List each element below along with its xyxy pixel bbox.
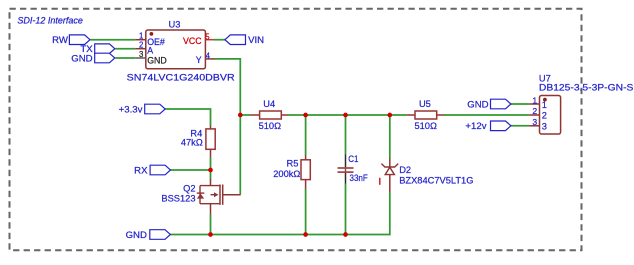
wire RX node to Q2 drain [210,170,212,180]
U4 right stub [281,114,287,116]
resistor R4 47k [181,125,215,157]
wire data line down to R5 top [305,115,307,156]
svg-text:Y: Y [196,55,202,65]
node junction data line at Y column [238,113,243,118]
wire +3.3v flag to R4 top [165,109,210,126]
U7 pin 2 stub [529,114,539,116]
U4 left stub [250,114,259,116]
svg-text:510Ω: 510Ω [259,121,282,131]
svg-text:BZX84C7V5LT1G: BZX84C7V5LT1G [399,176,473,186]
Q2 bulk arrow line [211,194,215,196]
wire R4 bottom to RX node [210,157,212,170]
svg-text:A: A [147,45,153,55]
node junction data line at R5 [303,113,308,118]
resistor U5 510 [407,99,445,131]
svg-text:GND: GND [467,99,488,110]
wire data line down to D2 cathode [389,115,391,159]
U7 pin 1 marker dot [543,98,547,102]
svg-text:SN74LVC1G240DBVR: SN74LVC1G240DBVR [127,73,235,83]
R5 bottom stub [305,180,307,189]
svg-text:3: 3 [532,117,537,127]
svg-text:U5: U5 [419,99,431,109]
capacitor C1 33nF [338,154,368,184]
port flag +3.3v [119,104,166,115]
port flag +12v [465,121,510,132]
svg-text:BSS123: BSS123 [161,194,195,204]
svg-text:510Ω: 510Ω [414,121,437,131]
node junction RX R4 Q2 [208,168,213,173]
port flag TX [80,44,114,55]
R4 top stub [210,125,212,128]
wire U3 pin 4 Y output down to data line and Q2 gate [215,59,241,194]
Q2 body diode triangle [197,194,204,199]
wire data line U5 right to U7 pin 2 [444,114,529,116]
port flag VIN [225,35,264,46]
R5 top stub [305,155,307,159]
svg-text:C1: C1 [348,154,358,164]
wire Q2 source to GND rail [210,214,212,234]
svg-text:+12v: +12v [465,121,486,132]
diode D2 zener BZX84C7V5LT1G [380,159,474,193]
U4 body [260,111,282,119]
wire RW net to U3 pin 1 [90,39,135,41]
C1 bottom stub [345,173,347,184]
Q2 channel bar [219,185,221,205]
C1 top stub [345,155,347,168]
U5 body [415,111,437,119]
R4 bottom stub [210,149,212,157]
Q2 gate plate [222,185,224,205]
node junction GND rail at R5 [303,232,308,237]
wire data line node to U4 left [240,114,250,116]
C1 inner stub [345,168,347,173]
svg-text:1: 1 [532,95,537,105]
svg-text:+3.3v: +3.3v [119,104,143,115]
D2 anode stub [389,175,391,193]
C1 top plate [338,167,354,169]
node junction data line at D2 [387,113,392,118]
svg-text:DB125-3.5-3P-GN-S: DB125-3.5-3P-GN-S [539,83,634,93]
svg-text:GND: GND [71,53,92,64]
Q2 bulk arrow head [214,192,218,197]
port flag GND left [71,53,115,64]
wire TX net to U3 pin 2 [115,48,135,50]
U5 left stub [407,114,415,116]
port flag RW [52,35,90,46]
transistor Q2 BSS123 [161,179,240,214]
U7 body [540,96,561,135]
svg-text:U4: U4 [263,99,275,109]
svg-text:GND: GND [147,56,167,66]
U7 pin 1 stub [529,103,539,105]
svg-text:4: 4 [206,51,211,60]
wire data line U4 right to U5 left [287,114,406,116]
svg-text:2: 2 [542,111,547,121]
Q2 body diode leg [199,186,201,204]
svg-text:2: 2 [532,106,537,116]
svg-text:3: 3 [542,121,547,131]
connector U7 DB125-3.5-3P-GN-S [529,74,633,135]
svg-text:1: 1 [542,100,547,110]
buffer U3 SN74LVC1G240DBVR [127,19,235,82]
svg-text:Q2: Q2 [183,184,195,194]
svg-text:VIN: VIN [248,35,264,46]
Q2 source bar [200,203,220,205]
Q2 source stub [210,204,212,215]
svg-text:SDI-12 Interface: SDI-12 Interface [17,15,83,25]
wire GND bottom rail up to D2 anode [170,192,389,234]
wire GND net to U3 pin 3 [115,57,135,59]
svg-text:1: 1 [139,32,143,41]
node junction data line at C1 [343,113,348,118]
svg-text:RW: RW [52,35,69,46]
C1 bottom plate [338,171,354,173]
Q2 gate stub [223,194,241,196]
wire data line down to C1 top [345,115,347,155]
D2 polarity tick [379,178,381,185]
svg-text:D2: D2 [399,165,411,175]
U3 pin 1 stub [135,39,146,41]
U3 pin 2 stub [135,48,146,50]
node junction GND rail at Q2 [208,232,213,237]
resistor U4 510 [250,99,287,131]
resistor R5 200k [273,155,310,188]
U3 pin 4 stub [205,58,215,60]
svg-text:VCC: VCC [183,36,202,46]
Q2 drain stub [210,179,212,186]
svg-text:33nF: 33nF [350,173,368,183]
svg-text:R5: R5 [287,158,299,168]
U3 pin 5 stub [205,39,213,41]
D2 triangle [385,167,394,174]
port flag GND right [467,99,511,110]
U5 right stub [437,114,445,116]
node junction GND rail at C1 [343,232,348,237]
Q2 drain bar [200,185,220,187]
wire R5 bottom to GND rail [305,189,307,235]
U7 pin 3 stub [529,125,539,127]
U3 pin 1 marker dot [150,32,154,36]
svg-text:200kΩ: 200kΩ [273,169,300,179]
U3 pin 3 stub [135,57,146,59]
port flag GND bottom [126,230,171,241]
wire U3 pin 5 to VIN flag [214,39,225,41]
U3 body [146,30,206,69]
D2 cathode stub [389,159,391,168]
Q2 body diode cathode bar [197,192,205,194]
svg-text:2: 2 [139,41,143,50]
svg-text:GND: GND [126,230,147,241]
wire C1 bottom to GND rail [345,184,347,235]
wire RX flag to node [171,169,211,171]
svg-text:47kΩ: 47kΩ [181,137,203,147]
svg-text:RX: RX [134,165,148,176]
port flag RX [134,165,170,176]
svg-text:U3: U3 [169,19,181,29]
R4 body [206,129,215,149]
svg-text:5: 5 [205,32,210,41]
svg-text:3: 3 [139,50,143,59]
D2 zener cathode bar [381,164,398,167]
wire GND flag to U7 pin 1 [511,103,529,105]
R5 body [301,160,310,180]
wire +12v flag to U7 pin 3 [511,125,529,127]
